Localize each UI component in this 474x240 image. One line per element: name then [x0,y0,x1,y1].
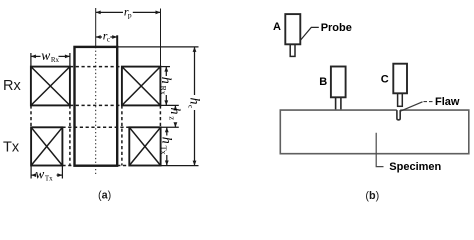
dashed Rx bottom across core [70,104,122,106]
specimen [280,110,469,154]
Rx winding left box [31,67,70,106]
dimension w_Tx [31,166,62,179]
svg-text:Specimen: Specimen [389,161,441,173]
svg-text:h: h [159,137,174,144]
label h_Rx (rotated) [158,77,173,95]
svg-text:h: h [186,98,201,105]
dimension r_p [96,11,161,15]
svg-text:Rx: Rx [51,56,60,64]
svg-text:B: B [319,76,327,88]
extension line h_c top [117,46,198,48]
svg-text:Probe: Probe [321,22,352,34]
dashed vertical Rx inner right projected [121,105,123,165]
svg-text:Rx: Rx [158,86,167,95]
probe C tip [398,93,403,106]
dimension h_c [193,47,197,166]
leader flaw [401,102,423,111]
Tx winding left box [31,127,62,165]
extension line h_z bottom [160,126,178,128]
dimension h_z [174,105,178,127]
probe A tip [290,44,295,56]
probe A body [285,14,300,44]
extension core right edge up to r_c [116,35,118,47]
svg-text:Tx: Tx [3,140,20,156]
dimension h_Rx [164,67,168,106]
dashed bottom gap left [62,165,74,167]
dashed Tx top across core [62,126,129,128]
core [75,47,118,166]
svg-text:Tx: Tx [159,146,168,155]
svg-text:(b): (b) [365,190,379,202]
svg-text:Rx: Rx [3,78,21,94]
Rx winding right box [122,67,160,106]
svg-text:p: p [128,11,132,20]
extension line h_Rx top [160,66,170,68]
svg-text:h: h [158,77,173,84]
svg-text:Flaw: Flaw [435,96,460,108]
svg-text:z: z [168,116,178,120]
leader probe [300,27,319,40]
dashed bottom gap right [117,165,129,167]
leader specimen [376,133,383,167]
label h_Tx (rotated) [159,137,174,155]
svg-text:Tx: Tx [45,175,53,183]
probe B tip (open, touching specimen) [336,97,341,109]
extension line bottom (h_Tx / h_c) [162,165,199,167]
probe B body [331,67,346,98]
Tx winding right box [129,127,160,165]
extension line axis top (r_p / r_c left) [95,8,97,47]
svg-text:(a): (a) [98,190,111,202]
axis centerline (dotted) [95,47,97,175]
label h_c (rotated) [186,98,201,110]
dashed vertical Rx inner left projected [69,105,71,165]
probe C body [393,64,407,94]
flaw notch [397,110,400,120]
dimension w_Rx [31,53,70,67]
extension line r_p right [160,9,162,67]
extension line h_z top [160,104,178,106]
svg-text:A: A [273,21,281,33]
svg-text:C: C [381,74,389,86]
dashed Rx top across core [70,66,122,68]
svg-text:w: w [41,48,50,63]
dimension h_Tx [165,127,169,165]
svg-text:h: h [167,108,182,115]
dimension r_c [96,35,118,39]
svg-text:w: w [35,167,44,182]
label h_z (rotated) [167,108,182,121]
dashed vertical outer-left gap [30,105,32,127]
dashed vertical outer-right gap [159,105,161,127]
